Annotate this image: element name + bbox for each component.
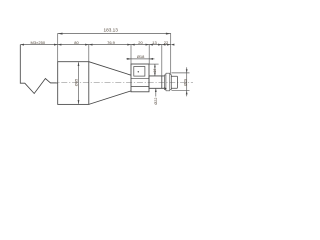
svg-text:Ø29: Ø29 (184, 79, 188, 86)
svg-text:20: 20 (138, 40, 143, 45)
svg-text:13: 13 (152, 40, 157, 45)
svg-text:Ø18: Ø18 (137, 54, 145, 59)
svg-text:80: 80 (74, 40, 79, 45)
svg-text:Ø22: Ø22 (154, 98, 158, 105)
svg-text:16: 16 (153, 69, 157, 73)
svg-text:M3×250: M3×250 (31, 40, 46, 45)
svg-text:Ø85: Ø85 (73, 79, 78, 86)
svg-text:76.9: 76.9 (107, 40, 116, 45)
svg-text:22: 22 (164, 40, 169, 45)
svg-text:183.13: 183.13 (104, 28, 119, 33)
